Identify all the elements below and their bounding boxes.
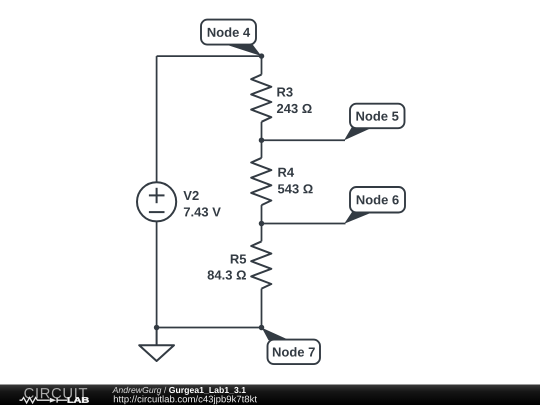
footer logo LAB wordmark [68,397,89,403]
footer credit separator [164,387,166,393]
voltage source V2 label [183,191,198,200]
wire node6 to R5 [261,224,263,242]
footer logo resistor zigzag [20,398,50,403]
footer logo CIRCUIT wordmark [24,388,87,398]
junction dot ground [154,325,160,331]
resistor R5 [251,241,271,288]
node label Node 6 box [350,187,405,213]
wire left vertical V2 top [156,56,158,182]
footer logo diode [50,398,56,403]
wire R3 to node5 [261,122,263,140]
node label Node 6 text [357,195,399,205]
footer url [114,395,257,404]
node label Node 4 tail [222,43,262,56]
wire node4 to R3 [261,56,263,75]
junction dot node7 right [259,325,265,331]
wire bottom horizontal [157,327,262,329]
resistor R5 label R5 [231,255,246,264]
resistor R4 label R4 [278,168,294,177]
ground [139,328,174,362]
junction dot node5 [259,137,265,143]
resistor R3 label R3 [277,87,292,96]
node label Node 5 tail [344,127,373,141]
resistor R3 value 243 ohm [277,104,312,113]
node label Node 4 box [201,20,256,45]
footer credit author [112,387,161,395]
node label Node 7 box [268,340,321,365]
wire R5 to bottom node [261,289,263,328]
resistor R4 [251,158,271,205]
junction dot node6 [259,221,265,227]
node label Node 5 box [350,104,405,129]
voltage source V2 value 7.43 V [184,207,221,216]
wire left vertical V2 bottom [156,221,158,328]
node label Node 7 text [273,347,315,357]
wire node5 to R4 [261,140,263,158]
node label Node 4 text [208,27,250,37]
voltage source V2 [137,182,176,221]
node label Node 7 tail [262,328,290,340]
wire node6 stub right [262,223,346,225]
junction dot node4 [259,53,265,59]
node label Node 6 tail [344,211,373,224]
resistor R3 [251,75,271,122]
node label Node 5 text [356,111,398,121]
wire node5 stub right [262,139,346,141]
resistor R4 value 543 ohm [278,184,313,193]
footer credit title [169,387,246,395]
wire R4 to node6 [261,205,263,223]
footer bar [0,385,540,405]
wire top horizontal node4 to V2 column [157,55,262,57]
resistor R5 value 84.3 ohm [208,270,246,279]
